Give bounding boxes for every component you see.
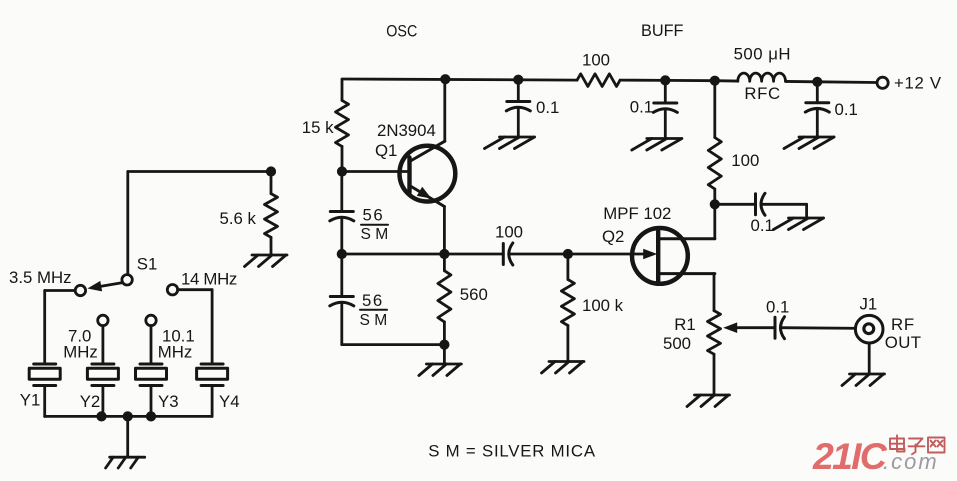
resistor 560 (emitter) [438,254,488,345]
svg-text:56: 56 [362,291,384,310]
wire lower cap to emitter ground node [342,343,445,346]
svg-text:Y3: Y3 [158,392,179,411]
potentiometer R1 500 [663,311,721,395]
connector J1 coax [855,315,883,343]
terminal Y3 10.1 MHz [146,315,195,361]
svg-text:15 k: 15 k [302,118,334,137]
switch S1 pole [122,255,157,285]
svg-text:.com: .com [883,449,939,474]
node drain bypass tap [710,199,720,209]
node bypass cap 1 tap [513,75,523,85]
node 5.6k tap [266,166,276,176]
svg-text:OUT: OUT [885,333,922,352]
svg-text:0.1: 0.1 [766,298,789,317]
wire Q2 source to R1 [713,274,716,311]
wire drain resistor to drain node [713,189,716,239]
node bypass cap 2 tap [660,75,670,85]
logo dianziwang glyphs [890,435,945,454]
resistor R 15 k (base bias) [302,80,349,172]
R1 wiper arrow [723,322,775,333]
crystal Y2 7.0 MHz [80,364,119,411]
svg-text:S M: S M [361,226,389,243]
svg-text:5.6 k: 5.6 k [220,209,257,228]
node supply bypass tap [812,77,822,87]
wire emitter node to coupling cap [342,253,504,256]
node emitter resistor bottom [439,340,449,350]
svg-text:0.1: 0.1 [536,98,559,117]
node center common [123,411,133,421]
wire Q1 collector to rail [443,80,446,142]
wire +12V supply rail [342,79,877,83]
node feedback divider [337,249,347,259]
svg-text:14 MHz: 14 MHz [181,270,237,289]
inductor RFC 500 uH [734,44,791,103]
svg-text:R1: R1 [674,315,695,334]
svg-text:Q2: Q2 [602,227,624,246]
svg-text:0.1: 0.1 [630,98,653,117]
wire Y3 to common [150,386,153,417]
crystal Y4 14 MHz [197,364,240,411]
terminal +12 V [877,74,942,93]
svg-text:RFC: RFC [744,84,780,103]
svg-text:MPF 102: MPF 102 [603,204,671,223]
capacitor 0.1 (output coupling) [766,298,789,339]
svg-text:Y2: Y2 [80,392,101,411]
svg-text:100: 100 [495,223,523,242]
svg-text:0.1: 0.1 [751,216,774,235]
svg-text:OSC: OSC [386,22,417,41]
resistor 100 k (gate) [561,254,623,361]
svg-text:S M = SILVER MICA: S M = SILVER MICA [428,442,596,461]
switch contact 3.5 MHz [9,268,86,296]
capacitor 0.1 (collector bypass) [506,80,559,137]
svg-text:MHz: MHz [158,343,193,362]
wire coupling cap to Q2 gate [509,253,646,256]
capacitor 56 SM (upper feedback) [330,172,354,255]
logo 21IC [812,435,888,477]
node Y3 common [146,411,156,421]
wire rail to drain resistor [713,81,716,138]
svg-text:0.1: 0.1 [835,100,858,119]
svg-text:100: 100 [582,51,610,70]
ground under 100 k [542,362,585,374]
svg-text:3.5 MHz: 3.5 MHz [9,268,71,287]
node drain feed tap on rail [710,76,720,86]
capacitor 0.1 (drain bypass) [715,193,807,235]
node 100k tap [563,249,573,259]
capacitor 0.1 (buffer bypass) [630,80,678,138]
wire contact to Y4 [178,290,212,364]
wire Y2 stem [102,326,105,364]
resistor 5.6 k [220,172,278,255]
ground under first 0.1 [485,137,535,149]
ground right of drain bypass cap [774,218,824,230]
switch S1 blade [87,281,122,292]
svg-text:Q1: Q1 [375,141,397,160]
resistor 100 (drain) [708,138,759,190]
wire Y1 to common [43,386,46,417]
svg-text:100 k: 100 k [582,296,624,315]
svg-text:500: 500 [663,334,691,353]
capacitor 0.1 (supply bypass) [805,82,858,137]
wire base line to switch [128,172,271,275]
svg-text:MHz: MHz [63,343,98,362]
svg-text:BUFF: BUFF [641,21,684,40]
svg-text:100: 100 [731,151,759,170]
svg-text:56: 56 [363,206,385,225]
crystal Y1 3.5 MHz [20,364,60,410]
wire Y3 stem [150,326,153,364]
svg-text:J1: J1 [860,294,878,313]
label J1 RF OUT [860,294,922,352]
wire output cap to J1 [781,326,865,329]
node Q1 collector on rail [440,74,450,84]
note S M = SILVER MICA [428,442,596,461]
svg-text:500 μH: 500 μH [734,44,791,63]
svg-text:21IC: 21IC [812,435,888,477]
svg-text:Y4: Y4 [219,392,240,411]
node emitter / 560 junction [439,249,449,259]
ground under crystal bus [106,416,145,468]
svg-text:S1: S1 [137,255,158,274]
node base bias junction [337,166,347,176]
wire Q1 base [342,170,410,173]
capacitor 100 (coupling) [495,223,523,266]
ground under R1 [687,395,730,407]
ground under 560 [419,345,462,376]
svg-text:Y1: Y1 [20,391,41,410]
title BUFF [641,21,684,40]
ground under second 0.1 [632,139,682,151]
ground under J1 [842,343,885,386]
transistor Q2 MPF102 JFET [632,228,715,284]
svg-text:S M: S M [360,312,388,329]
ground under supply bypass 0.1 [784,137,834,149]
title OSC [386,22,417,41]
label 2N3904 Q1 [375,121,436,160]
svg-text:2N3904: 2N3904 [377,121,436,140]
transistor Q1 2N3904 NPN [400,141,456,206]
svg-text:+12 V: +12 V [894,74,942,93]
wire crystal common bus [45,415,212,418]
resistor 100 (decoupling, horizontal) [577,51,620,87]
ground under 5.6 k [245,255,288,267]
node Y2 common [96,411,106,421]
svg-text:RF: RF [891,315,915,334]
switch contact 14 MHz [167,270,237,295]
wire Y4 to common [211,386,214,417]
wire Q1 emitter down [443,207,446,255]
label 56/SM lower [360,291,388,329]
terminal Y2 7.0 MHz [63,315,108,361]
logo .com [883,449,939,474]
svg-text:560: 560 [460,285,488,304]
label 56/SM upper [361,206,389,243]
label MPF 102 Q2 [602,204,671,246]
wire contact to Y1 [45,291,75,365]
capacitor 56 SM (lower feedback) [330,254,354,345]
wire Y2 to common [102,386,105,417]
crystal Y3 10.1 MHz [136,364,179,411]
